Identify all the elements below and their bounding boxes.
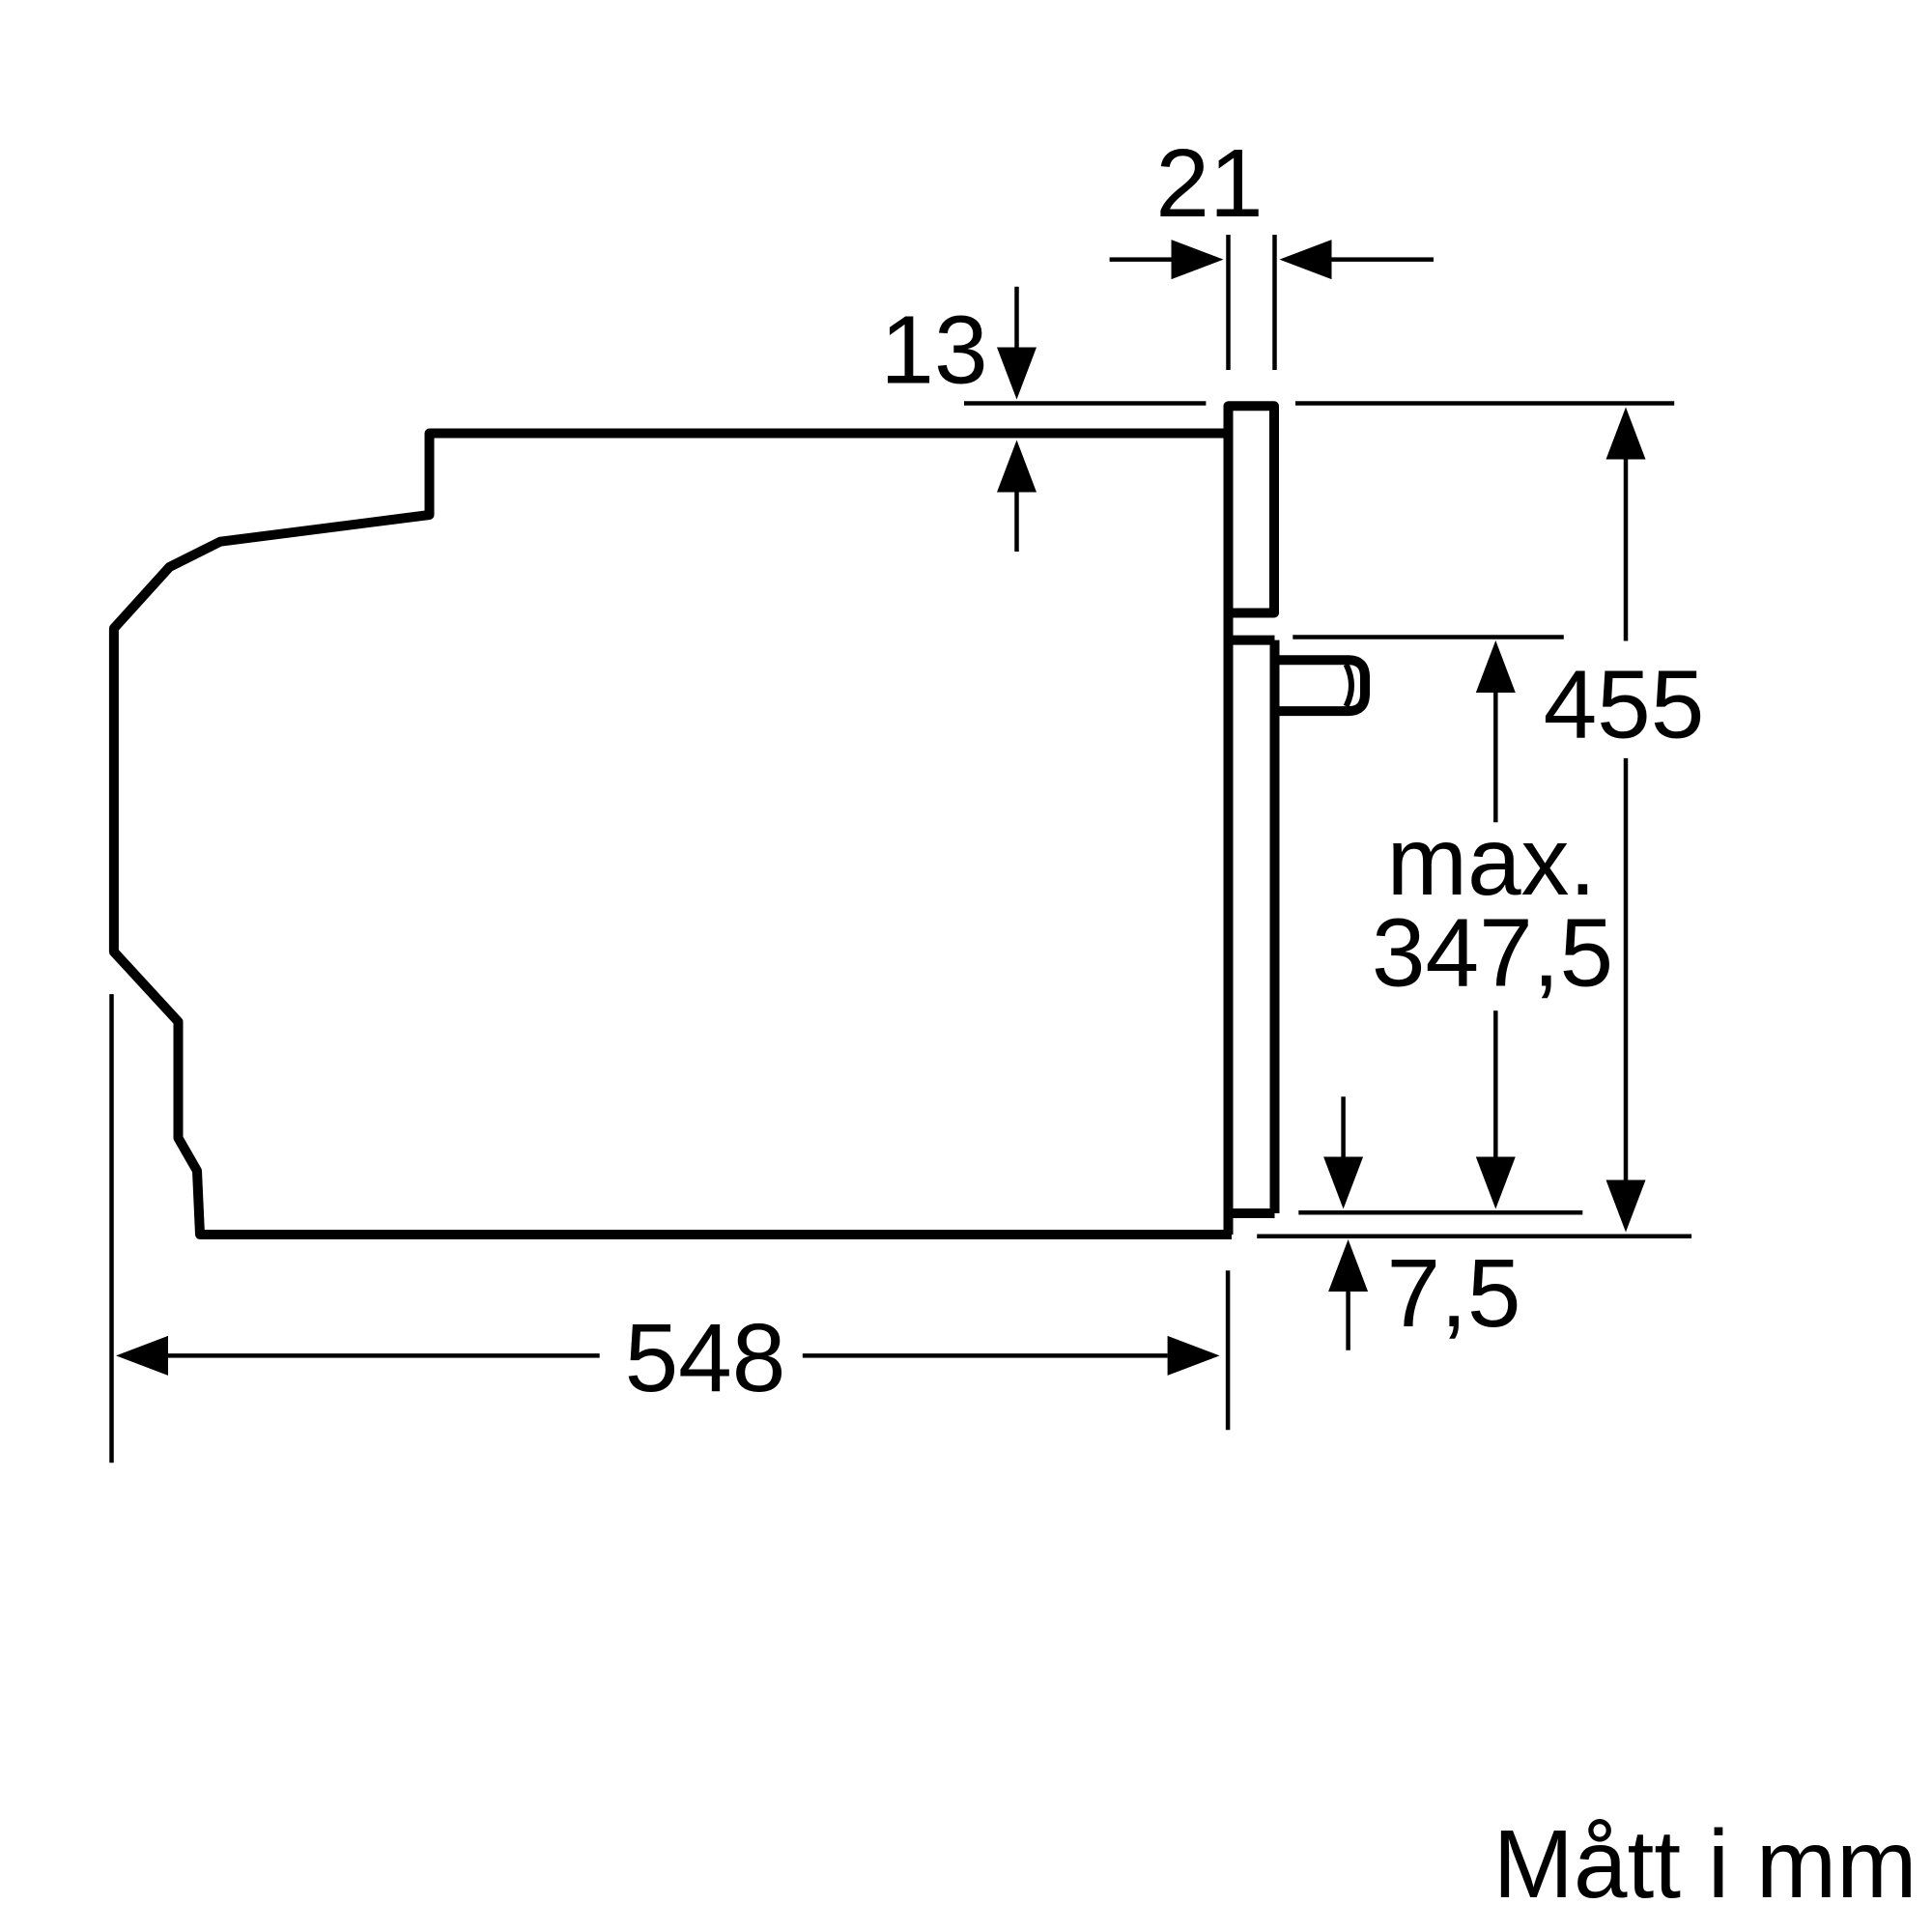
21 dimension left arrow bbox=[1110, 257, 1175, 262]
control panel upper box bbox=[1229, 406, 1275, 612]
svg-text:548: 548 bbox=[625, 1304, 786, 1412]
max 347,5 dimension line with arrows bbox=[1476, 640, 1516, 693]
reference line knob level (max top) bbox=[1293, 635, 1564, 639]
svg-text:347,5: 347,5 bbox=[1372, 899, 1613, 1008]
21 extension line right bbox=[1272, 235, 1277, 370]
panel step segment bbox=[1224, 613, 1234, 641]
svg-text:13: 13 bbox=[880, 297, 987, 405]
svg-text:21: 21 bbox=[1155, 129, 1263, 238]
svg-text:Mått i mm: Mått i mm bbox=[1493, 1810, 1918, 1918]
reference line oven bottom level bbox=[1257, 1234, 1691, 1238]
548 dimension line with arrows bbox=[116, 1336, 168, 1376]
21 extension line left bbox=[1226, 235, 1231, 370]
knob inner arc bbox=[1347, 665, 1352, 706]
knob bbox=[1275, 660, 1366, 711]
oven body profile bbox=[114, 434, 1233, 1236]
13 dimension upper arrow bbox=[1014, 287, 1019, 350]
548 extension line right bbox=[1226, 1270, 1231, 1430]
548 extension line left bbox=[109, 994, 114, 1463]
door front strip bbox=[1229, 640, 1275, 1235]
7,5 upper arrow bbox=[1341, 1096, 1346, 1158]
7,5 lower arrow bbox=[1328, 1239, 1368, 1292]
reference line top (13 level) left part bbox=[964, 401, 1206, 406]
13 dimension lower arrow bbox=[997, 440, 1037, 493]
svg-text:455: 455 bbox=[1544, 651, 1705, 759]
svg-text:7,5: 7,5 bbox=[1386, 1239, 1520, 1348]
reference line top (13 level) right part bbox=[1295, 401, 1674, 406]
reference line door bottom level bbox=[1298, 1210, 1582, 1215]
21 dimension right arrow bbox=[1332, 257, 1435, 262]
455 dimension line with arrows bbox=[1606, 408, 1646, 460]
